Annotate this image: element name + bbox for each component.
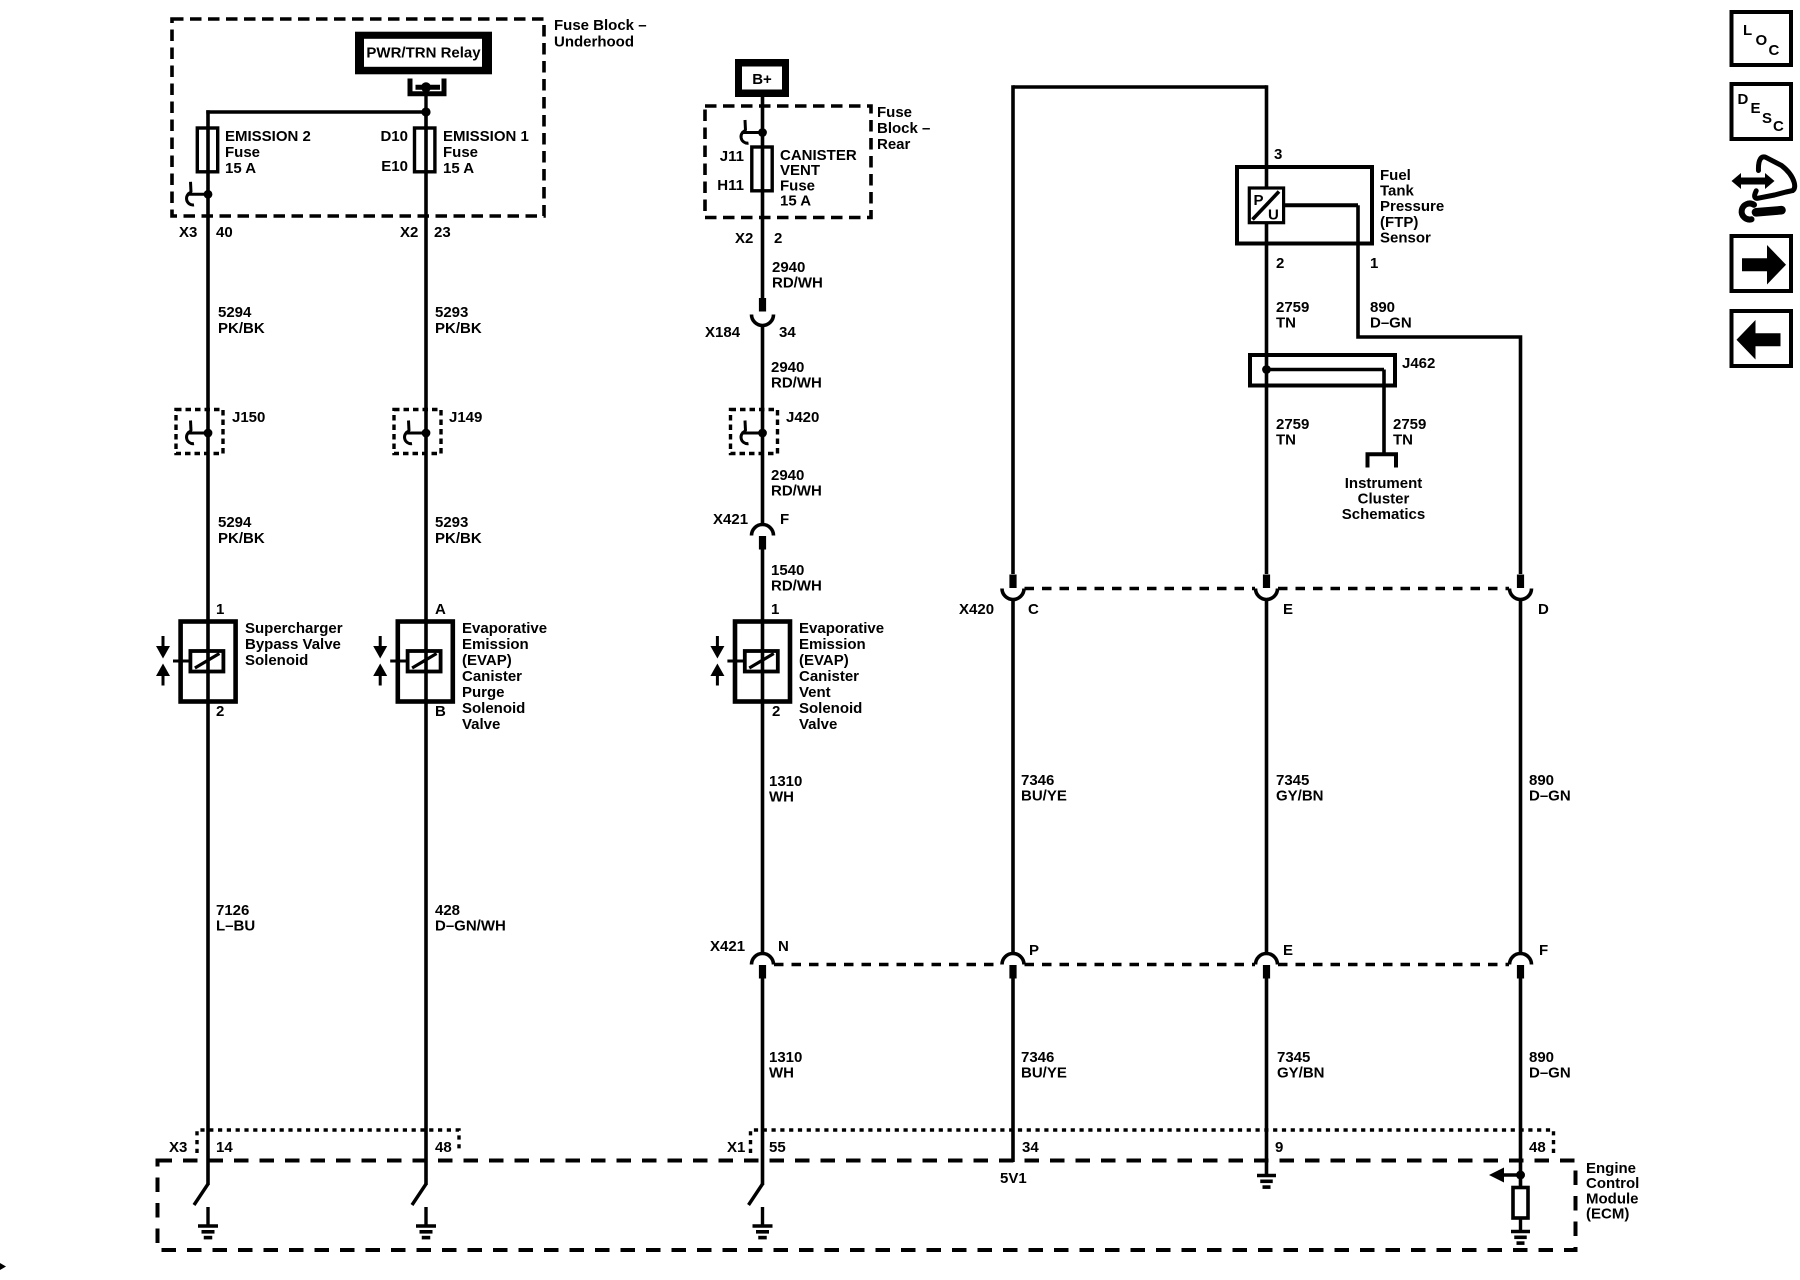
label Supercharger Bypass Valve Solenoid [245,620,343,669]
svg-text:Canister: Canister [462,668,522,685]
wire 1310 WH to ECM pin 55 [761,979,765,1186]
pin 2 label vent solenoid [772,703,780,720]
svg-text:D–GN: D–GN [1529,1065,1571,1082]
svg-text:55: 55 [769,1139,786,1156]
svg-text:15 A: 15 A [225,160,256,177]
pin 3 label FTP sensor [1274,146,1282,163]
svg-text:Schematics: Schematics [1342,506,1425,523]
wire 890 D-GN from FTP pin 1 [1358,205,1521,574]
svg-text:1: 1 [216,601,224,618]
pin label X1 55 [727,1139,786,1156]
svg-text:X421: X421 [713,511,748,528]
pin label X2 2 [735,230,782,247]
wire 2759 TN branch to instrument cluster [1382,370,1386,455]
svg-text:L–BU: L–BU [216,918,255,935]
page edge artifact mark [0,1263,6,1270]
wire 890 D-GN upper [1519,600,1523,953]
connector X184 female arc [752,315,774,326]
svg-text:Fuse: Fuse [443,144,478,161]
svg-text:Valve: Valve [462,716,500,733]
svg-text:RD/WH: RD/WH [771,578,822,595]
connector X420 D stub [1517,575,1524,589]
svg-text:890: 890 [1529,1049,1554,1066]
label EVAP Canister Vent Solenoid Valve [799,620,884,733]
svg-text:2759: 2759 [1393,416,1426,433]
svg-text:Solenoid: Solenoid [799,700,862,717]
svg-text:Fuse Block –: Fuse Block – [554,17,647,34]
svg-text:Cluster: Cluster [1358,491,1410,508]
label J150 [232,409,265,426]
svg-text:5294: 5294 [218,514,252,531]
svg-text:C: C [1773,118,1784,135]
svg-text:F: F [780,511,789,528]
svg-text:428: 428 [435,902,460,919]
connector J420 dashed box [731,410,778,454]
label X421 F [713,511,789,528]
connector X420 D female arc [1510,589,1532,600]
connector X421 F2 stub [1517,965,1524,979]
svg-text:1540: 1540 [771,562,804,579]
wire label 2940 RD/WH (above X184) [772,259,823,292]
wire label 7346 BU/YE (lower) [1021,1049,1067,1082]
svg-text:J149: J149 [449,409,482,426]
wire label 2759 TN (left below J462) [1276,416,1309,449]
svg-text:5V1: 5V1 [1000,1170,1027,1187]
connector X420 dotted harness line E to D [1278,587,1509,591]
svg-text:PK/BK: PK/BK [435,530,482,547]
resistor internal ECM [1513,1188,1528,1219]
svg-text:E: E [1751,100,1761,117]
svg-text:U: U [1268,207,1279,224]
icon forward arrow box [1732,236,1792,291]
svg-text:Instrument: Instrument [1345,475,1423,492]
svg-text:14: 14 [216,1139,233,1156]
svg-text:7345: 7345 [1277,1049,1310,1066]
pin B label purge solenoid [435,703,446,720]
connector J420 terminal [741,421,767,444]
svg-text:7346: 7346 [1021,1049,1054,1066]
svg-text:2: 2 [1276,255,1284,272]
connector X421 F female arc [752,525,774,536]
fuse F1 EMISSION 2 Fuse 15 A [197,128,217,172]
svg-text:X2: X2 [735,230,753,247]
svg-text:BU/YE: BU/YE [1021,1065,1067,1082]
svg-text:Supercharger: Supercharger [245,620,343,637]
svg-text:Fuse: Fuse [225,144,260,161]
svg-text:D–GN: D–GN [1529,788,1571,805]
wire label 2940 RD/WH (below J420) [771,467,822,500]
svg-text:Solenoid: Solenoid [245,652,308,669]
svg-text:L: L [1743,22,1752,39]
svg-text:1: 1 [771,601,779,618]
label CANISTER VENT Fuse 15 A [780,147,857,210]
svg-text:WH: WH [769,789,794,806]
wire label 2940 RD/WH (below X184) [771,359,822,392]
solenoid L1 Supercharger Bypass Valve Solenoid [156,622,236,702]
wire label 890 D-GN (lower) [1529,1049,1571,1082]
svg-text:2759: 2759 [1276,299,1309,316]
wire FTP pin 2 through box [1265,222,1269,574]
relay K relay PWR/TRN Relay [355,32,492,75]
svg-text:D10: D10 [380,128,408,145]
wire EMISSION 1 feed (5293 PK/BK) full column [424,112,428,1185]
splice pack J462 box [1250,355,1395,386]
svg-text:(EVAP): (EVAP) [799,652,849,669]
ground ECM pin 48 [416,1207,436,1238]
svg-text:E: E [1283,942,1293,959]
wire label 5293 PK/BK (lower) [435,514,482,547]
svg-text:X184: X184 [705,324,741,341]
svg-text:890: 890 [1529,772,1554,789]
icon back arrow box [1732,311,1792,366]
connector X421 N female arc [752,954,774,965]
svg-text:15 A: 15 A [780,193,811,210]
svg-text:2: 2 [216,703,224,720]
relay output terminal cup symbol [410,79,444,94]
wire label 1540 RD/WH [771,562,822,595]
svg-text:2: 2 [772,703,780,720]
svg-text:Purge: Purge [462,684,505,701]
ground ECM pin 14 [198,1207,218,1238]
pin 1 label FTP [1370,255,1378,272]
svg-text:(FTP): (FTP) [1380,214,1418,231]
connector X421 E stub [1263,965,1270,979]
label X421 F2 [1539,942,1548,959]
svg-text:Sensor: Sensor [1380,229,1431,246]
wire label 7126 L-BU [216,902,255,935]
junction dot at relay bus [421,107,430,116]
pin label 48 (X3) [435,1139,452,1156]
svg-text:D: D [1538,601,1549,618]
wire label 2759 TN (above J462) [1276,299,1309,332]
wire relay to bus junction [424,92,427,112]
svg-text:PK/BK: PK/BK [218,320,265,337]
svg-text:GY/BN: GY/BN [1276,788,1324,805]
svg-text:Underhood: Underhood [554,34,634,51]
svg-text:Evaporative: Evaporative [799,620,884,637]
label Fuse Block - Underhood [554,17,647,51]
svg-text:1310: 1310 [769,773,802,790]
label Instrument Cluster Schematics [1342,475,1425,523]
svg-text:Pressure: Pressure [1380,198,1444,215]
svg-text:Emission: Emission [799,636,866,653]
svg-text:E: E [1283,601,1293,618]
label 5V1 internal reference [1000,1170,1027,1187]
connector row X1 dotted bracket [751,1130,1554,1155]
connector X421 F stub [759,536,766,550]
svg-text:RD/WH: RD/WH [771,483,822,500]
svg-text:RD/WH: RD/WH [772,275,823,292]
svg-text:2: 2 [774,230,782,247]
svg-text:48: 48 [1529,1139,1546,1156]
svg-text:WH: WH [769,1065,794,1082]
svg-text:E10: E10 [381,158,408,175]
svg-text:D: D [1738,91,1749,108]
svg-text:A: A [435,601,446,618]
pin label 9 [1275,1139,1283,1156]
label D10 E10 fuse cavity pins [380,128,408,175]
svg-text:5293: 5293 [435,514,468,531]
wire label 428 D-GN/WH [435,902,506,935]
label X421 P [1029,942,1039,959]
off-page connector to instrument cluster [1368,454,1397,467]
pin label 34 [1022,1139,1039,1156]
ground ECM resistor [1511,1218,1530,1243]
wire label 7345 GY/BN (lower) [1277,1049,1325,1082]
svg-text:C: C [1769,42,1780,59]
wire 890 D-GN lower [1519,979,1523,1188]
pin 1 label vent solenoid [771,601,779,618]
svg-text:H11: H11 [717,177,744,194]
pin label X2 23 [400,224,451,241]
ECM internal bend wire pin 55 [749,1184,763,1205]
svg-text:23: 23 [434,224,451,241]
wire label 5293 PK/BK (upper) [435,304,482,337]
icon DESC box [1732,84,1792,139]
svg-text:TN: TN [1393,432,1413,449]
connector X421 F2 female arc [1510,954,1532,965]
wire 7345 GY/BN lower [1265,979,1269,1175]
svg-text:P: P [1254,192,1264,209]
label X420 E [1283,601,1293,618]
svg-text:EMISSION 2: EMISSION 2 [225,128,311,145]
connector X421 P female arc [1002,954,1024,965]
label X420 C [959,601,1039,618]
junction dot in J462 [1262,365,1271,374]
svg-text:X420: X420 [959,601,994,618]
connector J149 terminal [405,421,431,444]
svg-text:Block –: Block – [877,120,930,137]
wire label 5294 PK/BK (upper) [218,304,265,337]
connector X421 dotted harness line E to F [1278,963,1509,967]
svg-text:J11: J11 [720,148,744,165]
svg-text:5294: 5294 [218,304,252,321]
pin label X3 40 [179,224,233,241]
wire B+ to canister vent fuse [761,97,765,300]
svg-text:7126: 7126 [216,902,249,919]
svg-text:O: O [1756,32,1768,49]
svg-text:B+: B+ [752,71,772,88]
connector X420 C stub [1009,575,1016,589]
svg-text:2940: 2940 [772,259,805,276]
wire label 1310 WH (upper) [769,773,802,806]
connector X421 dotted harness line P to E [1025,963,1256,967]
svg-text:Solenoid: Solenoid [462,700,525,717]
label J149 [449,409,482,426]
wire J462 internal bus [1267,368,1385,371]
connector X421 N stub [759,965,766,979]
wire horizontal bus from EMISSION 2 branch to relay output [206,110,426,113]
svg-text:Vent: Vent [799,684,831,701]
label Fuse Block - Rear [877,104,930,153]
label X420 D [1538,601,1549,618]
svg-text:1: 1 [1370,255,1378,272]
svg-text:B: B [435,703,446,720]
wire FTP pin 3 vertical [1265,85,1269,189]
wire FTP internal to pin 1 [1283,203,1358,207]
svg-text:Valve: Valve [799,716,837,733]
wire label 7346 BU/YE (upper) [1021,772,1067,805]
svg-text:X3: X3 [179,224,197,241]
wire label 7345 GY/BN (upper) [1276,772,1324,805]
ground ECM pin 9 [1257,1176,1276,1188]
svg-text:1310: 1310 [769,1049,802,1066]
wire 2709 GY vertical to X420 C [1011,85,1015,574]
connector X184 pin 34 stub [759,298,766,312]
fuse F3 CANISTER VENT Fuse 15 A [752,147,772,191]
svg-text:34: 34 [779,324,796,341]
icon LOC box [1732,12,1792,65]
svg-text:D–GN: D–GN [1370,315,1412,332]
svg-text:3: 3 [1274,146,1282,163]
svg-text:40: 40 [216,224,233,241]
splice terminal in underhood block [187,182,213,205]
ground ECM pin 55 [753,1207,773,1238]
label J462 [1402,355,1435,372]
wire label 890 D-GN (upper) [1529,772,1571,805]
connector X420 dotted harness line C to E [1025,587,1256,591]
pin 2 label supercharger solenoid [216,703,224,720]
fuse F2 EMISSION 1 Fuse 15 A [415,128,435,172]
svg-text:TN: TN [1276,432,1296,449]
svg-text:Tank: Tank [1380,183,1415,200]
solenoid L3 EVAP Canister Vent Solenoid Valve [710,622,790,702]
FTP pressure transducer P/U symbol [1249,188,1283,224]
svg-text:7346: 7346 [1021,772,1054,789]
connector row X3 dotted bracket [197,1130,459,1153]
wire 7346 BU/YE lower [1011,979,1015,1163]
label J420 [786,409,819,426]
wire 2940 RD/WH X184 to J420 [761,325,765,525]
pin 2 label FTP [1276,255,1284,272]
svg-text:N: N [778,938,789,955]
label X421 N [710,938,789,955]
svg-text:Rear: Rear [877,136,911,153]
svg-text:X3: X3 [169,1139,187,1156]
connector J149 dashed box [394,410,441,454]
svg-text:X1: X1 [727,1139,745,1156]
svg-text:RD/WH: RD/WH [771,375,822,392]
connector X421 E female arc [1256,954,1278,965]
connector X421 P stub [1009,965,1016,979]
svg-text:J420: J420 [786,409,819,426]
svg-text:P: P [1029,942,1039,959]
wire horizontal top 2709 GY feed [1013,85,1267,89]
svg-text:TN: TN [1276,315,1296,332]
ECM internal bend wire pin 48 [412,1184,426,1205]
wire label 2759 TN (right below J462) [1393,416,1426,449]
svg-text:PK/BK: PK/BK [435,320,482,337]
svg-text:PWR/TRN Relay: PWR/TRN Relay [366,44,481,61]
splice terminal in rear block [741,120,767,143]
label X184 34 [705,324,796,341]
battery feed B+ box [735,59,789,97]
svg-text:(ECM): (ECM) [1586,1206,1629,1223]
svg-text:15 A: 15 A [443,160,474,177]
pin label 48 (X1) [1529,1139,1546,1156]
svg-text:X2: X2 [400,224,418,241]
pin label X3 14 [169,1139,233,1156]
label J11 H11 fuse cavity pins [717,148,744,194]
wire 7346 BU/YE upper [1011,600,1015,953]
svg-text:C: C [1028,601,1039,618]
ECM dashed box [158,1161,1576,1251]
svg-text:D–GN/WH: D–GN/WH [435,918,506,935]
svg-text:7345: 7345 [1276,772,1309,789]
svg-text:F: F [1539,942,1548,959]
svg-text:5293: 5293 [435,304,468,321]
svg-text:Canister: Canister [799,668,859,685]
svg-text:9: 9 [1275,1139,1283,1156]
wire label 890 D-GN (at FTP pin 1) [1370,299,1412,332]
svg-text:Evaporative: Evaporative [462,620,547,637]
connector X421 dotted harness line N to P [774,963,1002,967]
wire label 5294 PK/BK (lower) [218,514,265,547]
svg-text:2940: 2940 [771,359,804,376]
sensor FTP box [1237,167,1372,244]
fuse block underhood dashed box [172,19,544,216]
svg-text:BU/YE: BU/YE [1021,788,1067,805]
svg-text:J150: J150 [232,409,265,426]
wire 1540 RD/WH to vent solenoid [761,550,765,953]
wire 7345 GY/BN upper [1265,600,1269,953]
label Fuel Tank Pressure (FTP) Sensor [1380,167,1444,246]
svg-text:Bypass Valve: Bypass Valve [245,636,341,653]
svg-text:2759: 2759 [1276,416,1309,433]
svg-text:PK/BK: PK/BK [218,530,265,547]
label EMISSION 2 Fuse 15 A [225,128,311,177]
svg-text:2940: 2940 [771,467,804,484]
label EVAP Canister Purge Solenoid Valve [462,620,547,733]
svg-text:J462: J462 [1402,355,1435,372]
arrow internal signal ECM [1489,1168,1521,1183]
svg-text:EMISSION 1: EMISSION 1 [443,128,529,145]
wire label 1310 WH (lower) [769,1049,802,1082]
fuse block rear dashed box [705,106,871,218]
svg-text:(EVAP): (EVAP) [462,652,512,669]
svg-text:890: 890 [1370,299,1395,316]
svg-text:34: 34 [1022,1139,1039,1156]
connector J150 terminal [187,421,213,444]
svg-text:S: S [1762,110,1772,127]
wire EMISSION 2 feed (5294 PK/BK) full column [206,110,210,1185]
label X421 E2 [1283,942,1293,959]
label EMISSION 1 Fuse 15 A [443,128,529,177]
label Engine Control Module (ECM) [1586,1160,1639,1223]
svg-text:Fuel: Fuel [1380,167,1411,184]
connector J150 dashed box [176,410,223,454]
pin A label purge solenoid [435,601,446,618]
pin 1 label supercharger solenoid [216,601,224,618]
svg-text:X421: X421 [710,938,745,955]
solenoid L2 EVAP Canister Purge Solenoid Valve [373,622,453,702]
ECM internal bend wire pin 14 [194,1184,208,1205]
connector X420 E female arc [1256,589,1278,600]
svg-text:Emission: Emission [462,636,529,653]
connector X420 C female arc [1002,589,1024,600]
svg-text:Fuse: Fuse [877,104,912,121]
junction dot ECM pin 48 resistor [1516,1171,1525,1180]
svg-text:GY/BN: GY/BN [1277,1065,1325,1082]
connector X420 E stub [1263,575,1270,589]
icon harness routing doodle with double arrow and wrench [1732,157,1795,220]
svg-text:48: 48 [435,1139,452,1156]
